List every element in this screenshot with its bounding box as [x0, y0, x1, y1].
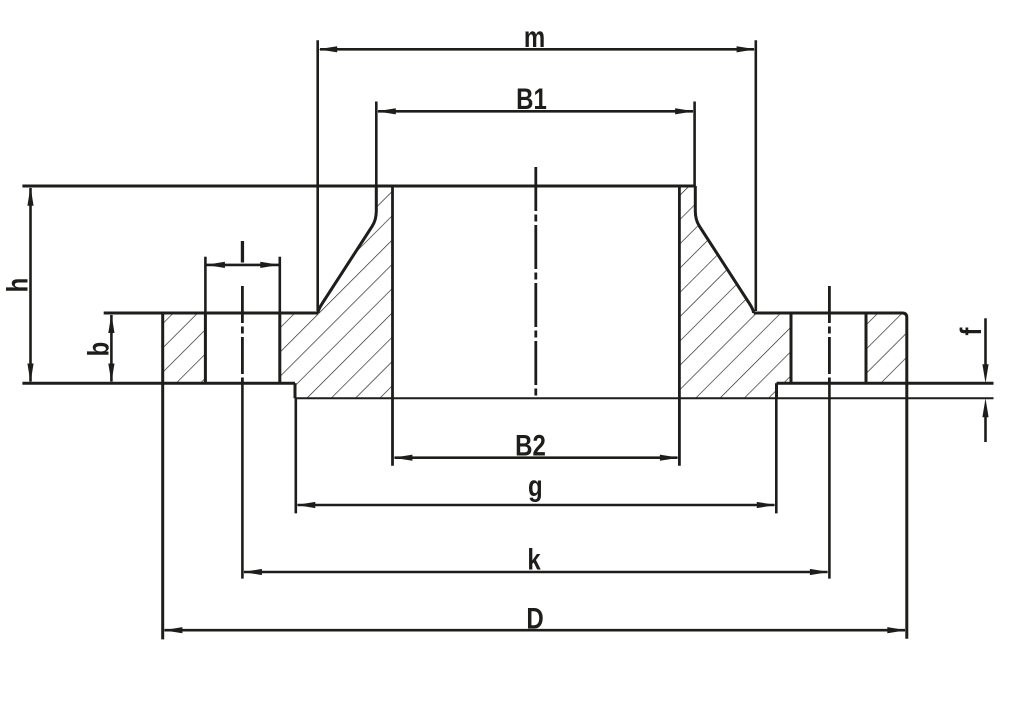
dimension line k: [244, 571, 828, 574]
flange bottom left with h b extensions: [22, 382, 295, 385]
dimension line h: [29, 188, 32, 382]
svg-text:B1: B1: [516, 81, 547, 115]
svg-text:l: l: [239, 235, 246, 269]
svg-text:g: g: [528, 469, 543, 503]
arrowhead g left: [296, 502, 315, 508]
svg-text:D: D: [526, 601, 543, 635]
arrowhead k right: [810, 569, 829, 575]
hatched cut region right outer block: [866, 313, 907, 383]
main centerline: [534, 167, 537, 398]
dimension line B1: [378, 110, 693, 113]
arrowhead m left: [318, 46, 337, 52]
raised face left edge: [294, 383, 297, 398]
bore left wall with B2 extension: [391, 186, 394, 466]
arrowhead h top: [27, 187, 33, 206]
m extension line left: [316, 40, 319, 311]
g extension line left: [294, 398, 297, 513]
svg-text:f: f: [953, 327, 987, 336]
hatched cut region right hub block: [679, 186, 791, 398]
arrowhead B2 right: [660, 455, 679, 461]
bolt hole left wall right side: [278, 313, 281, 383]
arrowhead B1 right: [675, 108, 694, 114]
svg-text:b: b: [81, 342, 115, 357]
bolt hole centerline right: [828, 286, 831, 383]
svg-text:h: h: [0, 278, 34, 293]
bolt hole right wall left side: [790, 313, 793, 383]
arrowhead m right: [737, 46, 756, 52]
flange right edge with D extension: [905, 318, 908, 639]
bolt hole centerline left: [241, 286, 244, 383]
neck top line with h extension: [22, 185, 695, 188]
flange bottom right with f extension: [777, 382, 994, 385]
neck left wall and hub taper: [318, 186, 376, 313]
g extension line right: [775, 398, 778, 513]
arrowhead l right: [260, 262, 279, 268]
dimension line l: [206, 264, 279, 267]
bolt hole right wall right side: [865, 313, 868, 383]
dimension line B2: [395, 456, 678, 459]
arrowhead D right: [887, 627, 906, 633]
hatched cut region left hub block: [280, 186, 393, 398]
bolt hole left wall left side: [204, 313, 207, 383]
dimension line m: [320, 48, 754, 51]
bore right wall with B2 extension: [678, 186, 681, 466]
flange left edge with D extension: [161, 313, 164, 639]
m extension line right: [754, 40, 757, 311]
f arrow shaft lower: [984, 416, 987, 442]
B1 extension line left: [375, 102, 378, 187]
k extension line right: [828, 383, 831, 578]
hatched cut region left outer block: [163, 313, 206, 383]
B1 extension line right: [693, 102, 696, 187]
f arrow shaft upper: [984, 318, 987, 366]
arrowhead D left: [163, 627, 182, 633]
l extension line left: [204, 257, 207, 313]
svg-text:m: m: [524, 19, 545, 53]
arrowhead b top: [108, 314, 114, 333]
k extension line left: [241, 383, 244, 578]
flange top left with b extension: [104, 312, 318, 315]
arrowhead B2 left: [393, 455, 412, 461]
arrowhead g right: [757, 502, 776, 508]
l extension line right: [278, 257, 281, 313]
arrowhead f upper pointing down: [982, 364, 988, 383]
arrowhead f lower pointing up: [982, 398, 988, 417]
dimension line g: [298, 504, 775, 507]
raised face right edge: [775, 383, 778, 398]
dimension line b: [110, 315, 113, 382]
flange top right: [754, 313, 907, 318]
svg-text:k: k: [527, 542, 541, 576]
dimension line D: [165, 629, 906, 632]
arrowhead b bottom: [108, 364, 114, 383]
arrowhead l left: [206, 262, 225, 268]
arrowhead B1 left: [377, 108, 396, 114]
arrowhead h bottom: [27, 364, 33, 383]
raised face bottom with f extension: [295, 397, 994, 399]
neck right wall and hub taper: [695, 186, 753, 313]
arrowhead k left: [243, 569, 262, 575]
svg-text:B2: B2: [515, 428, 546, 462]
